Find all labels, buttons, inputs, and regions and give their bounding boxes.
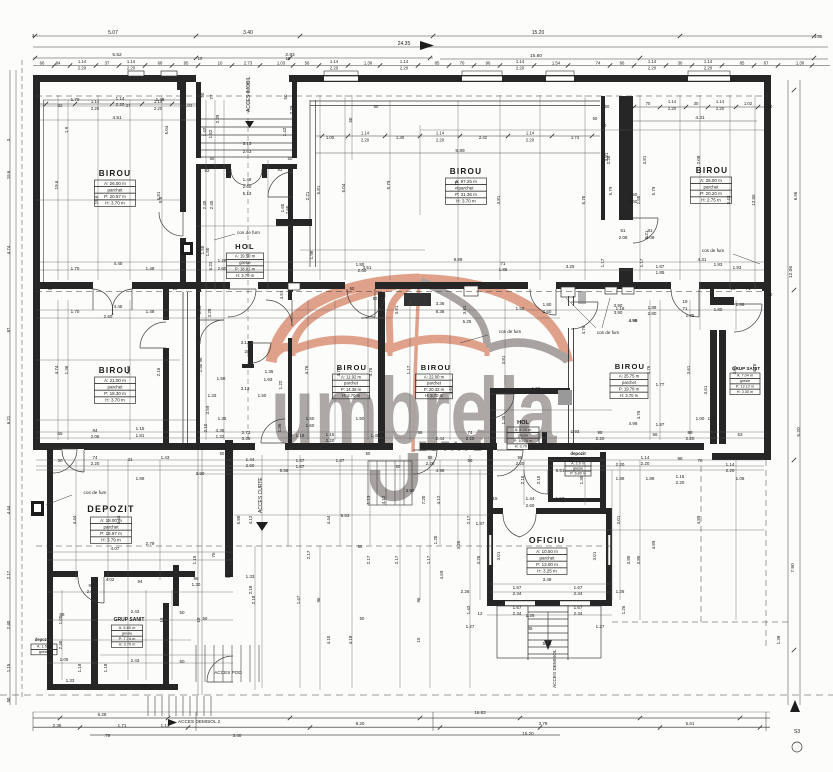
svg-text:18: 18 [196, 617, 201, 622]
svg-text:1.67: 1.67 [513, 605, 522, 610]
svg-text:2.20: 2.20 [127, 66, 136, 71]
svg-text:1.26: 1.26 [616, 589, 625, 594]
svg-text:1.15: 1.15 [136, 426, 145, 431]
svg-text:1.48: 1.48 [146, 266, 155, 271]
svg-text:65: 65 [57, 431, 63, 436]
svg-text:3.43: 3.43 [726, 195, 731, 204]
svg-text:68: 68 [158, 61, 163, 66]
svg-text:50: 50 [283, 94, 288, 99]
svg-text:1.57: 1.57 [556, 496, 565, 501]
svg-text:2.17: 2.17 [466, 515, 471, 524]
svg-text:2.21: 2.21 [644, 230, 649, 239]
svg-text:gresie: gresie [740, 379, 750, 383]
svg-text:A: 22.00 m: A: 22.00 m [424, 375, 445, 380]
svg-text:4.31: 4.31 [698, 257, 707, 262]
svg-text:2.10: 2.10 [536, 475, 541, 484]
svg-text:98: 98 [597, 430, 603, 435]
svg-text:3.85: 3.85 [636, 555, 641, 564]
svg-text:1.92: 1.92 [532, 386, 541, 391]
svg-text:A: 5.80 m: A: 5.80 m [119, 625, 136, 630]
svg-text:50: 50 [374, 104, 379, 109]
svg-text:1.18: 1.18 [103, 663, 108, 672]
svg-text:96: 96 [193, 576, 199, 581]
svg-text:70: 70 [460, 61, 465, 66]
svg-text:1.81: 1.81 [136, 433, 145, 438]
svg-text:4.44: 4.44 [72, 515, 77, 524]
svg-text:98: 98 [687, 430, 693, 435]
svg-text:3.61: 3.61 [448, 385, 453, 394]
svg-text:ACCES DEMISOL 2: ACCES DEMISOL 2 [178, 719, 221, 724]
svg-text:H: 3.79 m: H: 3.79 m [101, 538, 121, 543]
svg-text:94: 94 [137, 579, 143, 584]
svg-text:1.48: 1.48 [156, 97, 165, 102]
svg-text:8.20: 8.20 [356, 721, 365, 726]
svg-text:1.80: 1.80 [543, 302, 552, 307]
svg-text:H: 3.70 m: H: 3.70 m [105, 201, 125, 206]
svg-text:1.70: 1.70 [71, 97, 80, 102]
svg-text:71: 71 [500, 261, 506, 266]
svg-text:1.14: 1.14 [436, 131, 445, 136]
svg-text:1.14: 1.14 [361, 131, 370, 136]
svg-text:1.03: 1.03 [126, 365, 131, 374]
svg-text:2.17: 2.17 [366, 555, 371, 564]
svg-text:2.20: 2.20 [596, 436, 605, 441]
svg-text:78: 78 [697, 458, 703, 463]
svg-text:parchet: parchet [107, 188, 123, 193]
svg-text:1.9: 1.9 [64, 126, 69, 133]
svg-text:2.59: 2.59 [205, 405, 210, 414]
svg-text:10: 10 [218, 61, 223, 66]
svg-text:1.43: 1.43 [161, 455, 170, 460]
svg-text:cos de fum: cos de fum [237, 230, 260, 235]
svg-text:74: 74 [92, 455, 98, 460]
svg-text:2.60: 2.60 [285, 205, 290, 214]
svg-text:1.14: 1.14 [704, 59, 713, 64]
svg-text:H: 3.70 m: H: 3.70 m [236, 273, 255, 278]
svg-text:1.33: 1.33 [66, 678, 75, 683]
svg-text:3.49: 3.49 [543, 577, 552, 582]
svg-text:1.45: 1.45 [371, 433, 380, 438]
svg-text:1.89: 1.89 [648, 305, 657, 310]
svg-text:12.06: 12.06 [788, 266, 794, 278]
svg-text:3.90: 3.90 [406, 488, 415, 493]
svg-text:1.15: 1.15 [676, 474, 685, 479]
svg-text:2.20: 2.20 [516, 66, 525, 71]
svg-text:45: 45 [527, 626, 533, 631]
svg-text:1.33: 1.33 [208, 393, 217, 398]
svg-text:1.54: 1.54 [552, 61, 561, 66]
svg-text:1.67: 1.67 [574, 585, 583, 590]
svg-text:50: 50 [593, 116, 598, 121]
svg-text:50: 50 [179, 610, 185, 615]
svg-text:3.01: 3.01 [496, 551, 501, 560]
svg-text:3.90: 3.90 [196, 471, 205, 476]
svg-text:1.83: 1.83 [714, 262, 723, 267]
svg-text:2.08: 2.08 [619, 235, 628, 240]
svg-text:4.45: 4.45 [114, 261, 123, 266]
svg-text:6.96: 6.96 [793, 191, 798, 200]
svg-text:5.61: 5.61 [686, 721, 695, 726]
svg-text:1.14: 1.14 [526, 131, 535, 136]
svg-text:19: 19 [730, 286, 736, 291]
svg-text:5.58: 5.58 [280, 468, 289, 473]
svg-text:2.60: 2.60 [246, 463, 255, 468]
svg-text:2.20: 2.20 [726, 468, 735, 473]
svg-text:P: 20.57 m: P: 20.57 m [104, 194, 126, 199]
svg-text:1.27: 1.27 [596, 624, 605, 629]
svg-text:H: 3.70 m: H: 3.70 m [342, 393, 361, 398]
svg-text:1.00: 1.00 [696, 416, 705, 421]
svg-text:1.89: 1.89 [616, 476, 625, 481]
svg-text:50: 50 [605, 104, 610, 109]
svg-text:1.48: 1.48 [146, 309, 155, 314]
svg-text:98: 98 [427, 455, 433, 460]
svg-text:3.51: 3.51 [363, 265, 372, 270]
svg-text:3.25: 3.25 [566, 264, 575, 269]
svg-text:4.12: 4.12 [436, 495, 441, 504]
svg-text:3.36: 3.36 [436, 301, 445, 306]
svg-text:S3: S3 [794, 729, 800, 735]
svg-text:BIROU: BIROU [421, 363, 451, 372]
svg-text:2.18: 2.18 [251, 595, 256, 604]
svg-text:4.02: 4.02 [106, 577, 115, 582]
svg-text:1.22: 1.22 [216, 434, 225, 439]
svg-text:82: 82 [58, 103, 63, 108]
svg-text:HOL: HOL [235, 242, 255, 251]
svg-text:1.36: 1.36 [64, 365, 69, 374]
svg-text:P: 18.92 m: P: 18.92 m [235, 267, 256, 272]
svg-text:1.36: 1.36 [277, 423, 282, 432]
svg-text:1.52: 1.52 [208, 129, 213, 138]
svg-text:1.35: 1.35 [501, 415, 506, 424]
svg-text:2.63: 2.63 [243, 149, 252, 154]
svg-text:2.60: 2.60 [243, 184, 252, 189]
svg-text:1.38: 1.38 [776, 635, 781, 644]
svg-text:50: 50 [203, 616, 208, 621]
svg-text:2.20: 2.20 [616, 462, 625, 467]
svg-text:depozit: depozit [570, 451, 586, 456]
svg-text:1.74: 1.74 [571, 135, 580, 140]
svg-text:50: 50 [48, 456, 53, 461]
svg-text:2.20: 2.20 [526, 138, 535, 143]
svg-text:3.81: 3.81 [394, 305, 399, 314]
svg-text:2.20: 2.20 [426, 461, 435, 466]
svg-text:1.50: 1.50 [516, 306, 525, 311]
svg-text:2.43: 2.43 [131, 658, 140, 663]
svg-text:85: 85 [740, 61, 745, 66]
svg-text:19.6: 19.6 [94, 195, 99, 204]
svg-text:H: 3.25 m: H: 3.25 m [537, 569, 557, 574]
svg-text:1.14: 1.14 [726, 462, 735, 467]
svg-text:5.79: 5.79 [608, 186, 613, 195]
svg-text:4.18: 4.18 [348, 635, 353, 644]
svg-text:2.20: 2.20 [400, 66, 409, 71]
svg-text:2.06: 2.06 [91, 434, 100, 439]
svg-text:50: 50 [350, 286, 355, 291]
svg-text:3.01: 3.01 [616, 515, 621, 524]
svg-text:3.28: 3.28 [207, 308, 212, 317]
svg-text:A: 8.00 m: A: 8.00 m [515, 427, 532, 432]
svg-text:1.05: 1.05 [60, 657, 69, 662]
svg-text:12: 12 [477, 611, 483, 616]
svg-text:4.51: 4.51 [279, 290, 284, 299]
svg-text:28: 28 [244, 349, 250, 354]
svg-text:5.25: 5.25 [463, 319, 472, 324]
svg-text:4.76: 4.76 [581, 325, 586, 334]
svg-text:1.57: 1.57 [296, 458, 305, 463]
svg-text:50: 50 [173, 286, 178, 291]
svg-text:2.08: 2.08 [696, 155, 701, 164]
svg-text:1.77: 1.77 [656, 382, 665, 387]
svg-text:2.06: 2.06 [87, 589, 96, 594]
svg-text:30: 30 [694, 101, 699, 106]
svg-text:53: 53 [737, 432, 743, 437]
svg-text:OFICIU: OFICIU [529, 535, 565, 545]
svg-text:1.89: 1.89 [136, 476, 145, 481]
svg-text:parchet: parchet [703, 185, 719, 190]
svg-text:1.35: 1.35 [218, 416, 227, 421]
svg-text:A: 19.50 m: A: 19.50 m [235, 254, 256, 259]
svg-text:50: 50 [48, 286, 53, 291]
svg-text:parchet: parchet [539, 556, 555, 561]
svg-text:74: 74 [467, 430, 473, 435]
svg-text:ACCES IMOBIL: ACCES IMOBIL [246, 76, 252, 112]
svg-text:2.40: 2.40 [6, 620, 11, 629]
svg-text:3.81: 3.81 [462, 305, 467, 314]
svg-text:1.33: 1.33 [246, 574, 255, 579]
svg-text:P: 10.76 m: P: 10.76 m [514, 438, 533, 443]
svg-text:1.00: 1.00 [326, 135, 335, 140]
svg-text:2.10: 2.10 [520, 475, 525, 484]
svg-text:4.69: 4.69 [439, 570, 444, 579]
svg-text:83: 83 [225, 574, 231, 579]
svg-text:2.34: 2.34 [513, 611, 522, 616]
svg-text:2.60: 2.60 [543, 309, 552, 314]
svg-text:2.26: 2.26 [461, 589, 470, 594]
svg-text:5.70: 5.70 [454, 180, 459, 189]
svg-text:4.89: 4.89 [696, 515, 701, 524]
svg-text:3.81: 3.81 [496, 195, 501, 204]
svg-text:parchet: parchet [458, 186, 474, 191]
svg-text:BIROU: BIROU [99, 169, 131, 178]
svg-text:2.20: 2.20 [116, 102, 125, 107]
svg-text:1.50: 1.50 [205, 247, 210, 256]
svg-text:19.6: 19.6 [54, 180, 59, 189]
svg-text:4.45: 4.45 [114, 304, 123, 309]
svg-text:1.14: 1.14 [641, 455, 650, 460]
svg-text:1.50: 1.50 [258, 393, 267, 398]
svg-text:1.22: 1.22 [278, 380, 283, 389]
svg-text:1.50: 1.50 [356, 416, 365, 421]
svg-text:87: 87 [6, 327, 11, 332]
svg-text:96: 96 [416, 597, 421, 602]
svg-text:1.70: 1.70 [71, 309, 80, 314]
svg-text:50: 50 [373, 296, 378, 301]
svg-text:4.98: 4.98 [436, 468, 445, 473]
svg-text:2.60: 2.60 [104, 314, 113, 319]
svg-text:1.03: 1.03 [277, 61, 286, 66]
svg-text:15.60: 15.60 [530, 53, 542, 59]
svg-text:5.88: 5.88 [236, 515, 241, 524]
svg-text:2.29: 2.29 [289, 105, 294, 114]
svg-text:A: 25.75 m: A: 25.75 m [619, 374, 640, 379]
svg-text:1.80: 1.80 [714, 307, 723, 312]
svg-text:5.28: 5.28 [98, 712, 107, 717]
svg-text:85: 85 [435, 61, 440, 66]
svg-text:91: 91 [567, 458, 573, 463]
svg-text:A: 7.04 m: A: 7.04 m [737, 374, 753, 378]
svg-text:2.10: 2.10 [203, 423, 208, 432]
svg-text:gresie: gresie [122, 631, 133, 636]
svg-text:P: 20.20 m: P: 20.20 m [700, 191, 722, 196]
svg-text:2.40: 2.40 [198, 363, 203, 372]
svg-text:1.26: 1.26 [621, 605, 626, 614]
svg-text:1.14: 1.14 [648, 59, 657, 64]
svg-text:75: 75 [211, 552, 216, 557]
svg-text:56: 56 [305, 61, 310, 66]
svg-text:2.79: 2.79 [146, 541, 155, 546]
svg-text:9.89: 9.89 [454, 257, 463, 262]
svg-text:1.17: 1.17 [426, 555, 431, 564]
svg-text:4.76: 4.76 [646, 365, 651, 374]
svg-text:A: 10.50 m: A: 10.50 m [536, 549, 558, 554]
svg-text:1.17: 1.17 [639, 258, 644, 267]
svg-text:P: 14.36 m: P: 14.36 m [341, 387, 362, 392]
svg-text:gresie: gresie [239, 260, 251, 265]
svg-text:66: 66 [620, 61, 625, 66]
svg-text:19: 19 [682, 299, 688, 304]
svg-text:gresie: gresie [518, 433, 529, 438]
svg-text:1.87: 1.87 [296, 464, 305, 469]
svg-text:1.30: 1.30 [192, 582, 201, 587]
svg-text:3.90: 3.90 [614, 310, 623, 315]
svg-text:4.12: 4.12 [248, 515, 253, 524]
svg-text:1.42: 1.42 [202, 127, 207, 136]
svg-text:A: 26.00 m: A: 26.00 m [104, 181, 126, 186]
svg-text:2.21: 2.21 [305, 191, 310, 200]
svg-text:1.85: 1.85 [686, 313, 695, 318]
svg-text:4.76: 4.76 [304, 365, 309, 374]
svg-text:92: 92 [204, 168, 210, 173]
svg-text:5.20: 5.20 [796, 427, 802, 437]
svg-text:ACCES POD: ACCES POD [214, 670, 242, 675]
svg-text:12.06: 12.06 [751, 194, 756, 206]
svg-text:parchet: parchet [107, 385, 123, 390]
svg-text:ACCES CURTE: ACCES CURTE [258, 477, 264, 513]
svg-text:1.87: 1.87 [476, 521, 485, 526]
svg-text:4.76: 4.76 [636, 410, 641, 419]
svg-text:50: 50 [358, 544, 363, 549]
svg-text:2.20: 2.20 [516, 461, 525, 466]
svg-text:2.42: 2.42 [479, 135, 488, 140]
svg-text:1.44: 1.44 [526, 496, 535, 501]
svg-text:1.13: 1.13 [366, 495, 371, 504]
svg-text:4.76: 4.76 [752, 363, 757, 372]
svg-text:1.60: 1.60 [636, 195, 641, 204]
svg-text:1.15: 1.15 [6, 663, 11, 672]
svg-text:4.44: 4.44 [326, 515, 331, 524]
svg-text:2.60: 2.60 [526, 503, 535, 508]
svg-text:1.05: 1.05 [58, 615, 63, 624]
svg-text:1.14: 1.14 [127, 59, 136, 64]
svg-text:1.35: 1.35 [579, 475, 584, 484]
svg-text:HOL: HOL [517, 420, 529, 426]
svg-text:2.60: 2.60 [218, 266, 227, 271]
svg-text:2.45: 2.45 [202, 200, 207, 209]
svg-text:5.81: 5.81 [316, 185, 321, 194]
svg-text:2.34: 2.34 [574, 591, 583, 596]
svg-text:16.83: 16.83 [474, 710, 486, 715]
svg-text:50: 50 [348, 117, 353, 122]
svg-text:50: 50 [200, 92, 205, 97]
svg-text:94: 94 [88, 583, 94, 588]
svg-text:.79: .79 [104, 733, 111, 738]
svg-text:3.85: 3.85 [626, 555, 631, 564]
svg-text:98: 98 [517, 455, 523, 460]
svg-text:1.17: 1.17 [406, 365, 411, 374]
svg-text:70: 70 [646, 101, 651, 106]
svg-text:2.20: 2.20 [686, 436, 695, 441]
svg-text:1.86: 1.86 [736, 302, 745, 307]
svg-text:1.89: 1.89 [646, 476, 655, 481]
svg-text:6.23: 6.23 [208, 261, 213, 270]
svg-text:8.36: 8.36 [436, 309, 445, 314]
svg-text:61: 61 [620, 228, 626, 233]
svg-text:18: 18 [159, 617, 164, 622]
svg-text:1.14: 1.14 [516, 59, 525, 64]
svg-text:2.40: 2.40 [58, 640, 63, 649]
svg-text:1.60: 1.60 [306, 423, 315, 428]
svg-text:parchet: parchet [622, 380, 637, 385]
svg-text:A: 1.5 m: A: 1.5 m [37, 645, 51, 649]
svg-text:31: 31 [127, 457, 133, 462]
svg-text:30: 30 [678, 61, 683, 66]
svg-text:1.14: 1.14 [116, 96, 125, 101]
svg-text:1.50: 1.50 [306, 416, 315, 421]
svg-text:ACCES DEMISOL: ACCES DEMISOL [552, 649, 557, 688]
svg-text:1.87: 1.87 [656, 422, 665, 427]
svg-text:92: 92 [277, 167, 283, 172]
svg-text:DEPOZIT: DEPOZIT [87, 504, 134, 514]
svg-text:2.20: 2.20 [91, 106, 100, 111]
svg-text:A: 2.0 m: A: 2.0 m [571, 461, 585, 465]
svg-text:BIROU: BIROU [615, 362, 645, 371]
svg-text:2.20: 2.20 [91, 461, 100, 466]
svg-text:96: 96 [198, 357, 203, 362]
svg-text:7.20: 7.20 [421, 495, 426, 504]
svg-text:1.28: 1.28 [218, 258, 227, 263]
svg-text:5.04: 5.04 [341, 183, 346, 192]
svg-text:1.93: 1.93 [264, 377, 273, 382]
svg-text:3.01: 3.01 [732, 365, 737, 374]
svg-text:4.76: 4.76 [336, 367, 341, 376]
svg-text:2.73: 2.73 [244, 61, 253, 66]
svg-text:4.89: 4.89 [651, 540, 656, 549]
svg-text:3.81: 3.81 [501, 355, 506, 364]
svg-text:2.45: 2.45 [209, 200, 214, 209]
svg-text:1.27: 1.27 [466, 624, 475, 629]
svg-text:50: 50 [768, 104, 773, 109]
svg-text:3.13: 3.13 [241, 340, 250, 345]
svg-text:2.20: 2.20 [466, 436, 475, 441]
svg-text:3.61: 3.61 [703, 385, 708, 394]
svg-text:1.67: 1.67 [574, 605, 583, 610]
svg-text:2.43: 2.43 [131, 609, 140, 614]
svg-text:4.10: 4.10 [326, 635, 331, 644]
svg-text:2.34: 2.34 [513, 591, 522, 596]
svg-text:P: 12.12 m: P: 12.12 m [736, 385, 754, 389]
svg-text:2.20: 2.20 [648, 66, 657, 71]
